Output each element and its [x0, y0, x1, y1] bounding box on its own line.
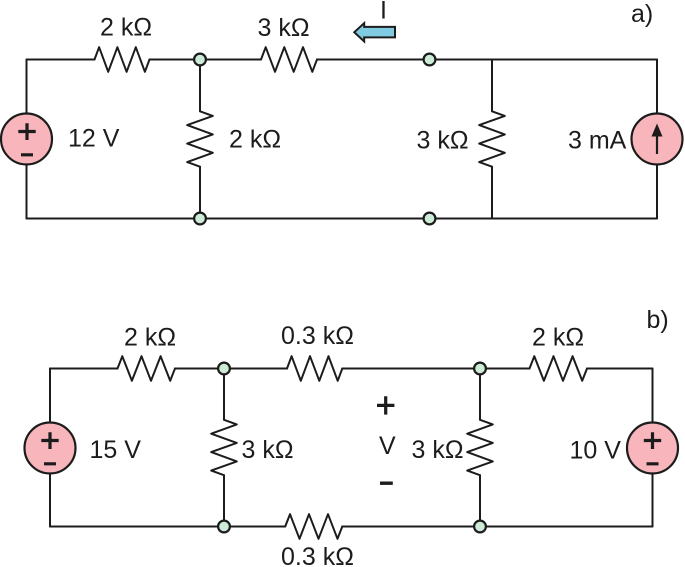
- node G (circuit b, bottom left-middle): [218, 521, 230, 533]
- wire: circuit b left-middle branch lower: [223, 475, 225, 526]
- svg-text:0.3 kΩ: 0.3 kΩ: [281, 322, 354, 350]
- svg-text:2 kΩ: 2 kΩ: [124, 324, 176, 352]
- wire: circuit a 3k branch upper: [491, 60, 493, 112]
- wire: circuit a left branch lower: [26, 165, 28, 219]
- wire: circuit a right branch upper: [656, 60, 658, 114]
- wire: circuit b bottom rail left segment: [50, 526, 285, 528]
- resistor 0.3 kOhm (circuit b, top middle): [287, 356, 342, 381]
- wire: circuit a top rail right segment: [317, 59, 657, 61]
- resistor 3 kOhm vertical (circuit b, right middle): [467, 420, 493, 475]
- voltage source 12 V (circuit a): [1, 114, 52, 165]
- voltage source 10 V (circuit b): [627, 423, 678, 474]
- svg-text:3 kΩ: 3 kΩ: [412, 436, 464, 464]
- resistor 2 kOhm horizontal (circuit a, top left): [95, 47, 150, 72]
- wire: circuit a top rail left segment: [27, 59, 95, 61]
- wire: circuit a left branch upper: [26, 60, 28, 114]
- node B (circuit a, top right): [424, 54, 436, 66]
- wire: circuit a right branch lower: [656, 165, 658, 219]
- wire: circuit a bottom rail: [27, 218, 658, 220]
- svg-text:I: I: [380, 0, 387, 25]
- svg-text:a): a): [631, 0, 653, 28]
- wire: circuit b top rail segment 2: [175, 368, 287, 370]
- svg-text:2 kΩ: 2 kΩ: [229, 126, 281, 154]
- wire: circuit b left branch upper: [49, 369, 51, 423]
- current source 3 mA (circuit a): [632, 114, 683, 165]
- node H (circuit b, bottom right-middle): [474, 521, 486, 533]
- wire: circuit b right-middle branch upper: [479, 369, 481, 420]
- resistor 2 kOhm (circuit b, top right): [530, 356, 588, 381]
- resistor 2 kOhm (circuit b, top left): [118, 356, 176, 381]
- node F (circuit b, top right-middle): [474, 363, 486, 375]
- wire: circuit b top rail right segment: [587, 368, 653, 370]
- current arrow I (circuit a): [354, 23, 395, 41]
- resistor 2 kOhm vertical (circuit a, middle): [187, 111, 213, 166]
- wire: circuit a middle branch lower: [199, 167, 201, 219]
- svg-text:3 kΩ: 3 kΩ: [242, 436, 294, 464]
- wire: circuit a 3k branch lower: [491, 167, 493, 219]
- svg-text:3 mA: 3 mA: [568, 127, 627, 155]
- resistor 0.3 kOhm (circuit b, bottom): [285, 514, 342, 539]
- node A (circuit a, top middle): [194, 54, 206, 66]
- svg-text:2 kΩ: 2 kΩ: [532, 324, 584, 352]
- wire: circuit b top rail segment 3: [342, 368, 529, 370]
- wire: circuit b right-middle branch lower: [479, 475, 481, 526]
- resistor 3 kOhm vertical (circuit a): [479, 111, 505, 166]
- svg-text:2 kΩ: 2 kΩ: [100, 14, 152, 42]
- wire: circuit b bottom rail right segment: [342, 526, 652, 528]
- wire: circuit a top rail between R 2k and R 3k: [150, 59, 262, 61]
- voltage source 15 V (circuit b): [25, 423, 76, 474]
- wire: circuit b right branch upper: [652, 369, 654, 423]
- node C (circuit a, bottom middle): [194, 213, 206, 225]
- node E (circuit b, top left-middle): [218, 363, 230, 375]
- label minus of V: [380, 482, 393, 485]
- wire: circuit b left branch lower: [49, 474, 51, 527]
- svg-text:12 V: 12 V: [68, 125, 120, 153]
- wire: circuit b left-middle branch upper: [223, 369, 225, 420]
- wire: circuit b top rail left segment: [50, 368, 118, 370]
- resistor 3 kOhm horizontal (circuit a, top): [261, 47, 317, 72]
- resistor 3 kOhm vertical (circuit b, left middle): [211, 420, 237, 475]
- svg-text:V: V: [379, 432, 396, 460]
- svg-text:b): b): [647, 306, 669, 334]
- label plus of V: [377, 396, 394, 414]
- svg-text:10 V: 10 V: [570, 437, 622, 465]
- svg-text:0.3 kΩ: 0.3 kΩ: [281, 543, 354, 567]
- node D (circuit a, bottom right): [424, 213, 436, 225]
- svg-text:3 kΩ: 3 kΩ: [258, 14, 310, 42]
- wire: circuit b right branch lower: [652, 474, 654, 527]
- wire: circuit a middle branch upper: [199, 60, 201, 112]
- svg-text:3 kΩ: 3 kΩ: [417, 127, 469, 155]
- svg-text:15 V: 15 V: [90, 436, 142, 464]
